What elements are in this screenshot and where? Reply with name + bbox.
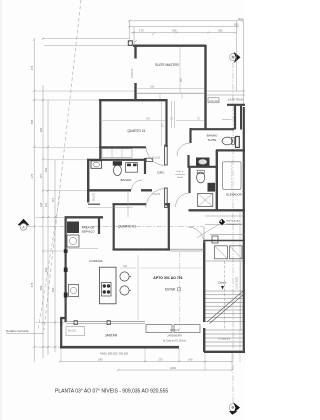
laje tecnica wall bottom (227, 104, 245, 106)
banho2 door arc (176, 193, 190, 207)
elevator top wall (216, 149, 245, 151)
door quarto01 leaf (165, 145, 168, 165)
svg-text:QUARTO 01: QUARTO 01 (128, 129, 146, 133)
svg-text:PLANTA 03° AO 07° NÍVEIS - 909: PLANTA 03° AO 07° NÍVEIS - 909,035 AO 92… (55, 388, 168, 395)
wall south (jantar bottom) (60, 346, 179, 349)
svg-text:QUARTO 02: QUARTO 02 (118, 224, 136, 228)
svg-text:100x100: 100x100 (209, 100, 219, 103)
left wall extension line (44, 45, 133, 47)
wall servico right (98, 217, 100, 234)
bottom dim labels (98, 358, 193, 371)
left reference dim line (43, 38, 131, 40)
wall banho social top (87, 159, 146, 161)
svg-text:VENTILAÇÃO: VENTILAÇÃO (226, 220, 240, 223)
stair center dashed (224, 261, 226, 330)
top dimension line 1 (128, 20, 244, 22)
wall outer left (quarto01) (99, 100, 101, 160)
svg-text:BANHO: BANHO (121, 178, 132, 182)
svg-text:CIRC.: CIRC. (157, 170, 165, 174)
wall circ left (banho right) (144, 158, 146, 174)
corridor partition line (127, 192, 129, 217)
banho social toilet (113, 161, 122, 165)
svg-text:70x210: 70x210 (152, 157, 161, 160)
wall circ right vertical (165, 99, 167, 147)
wall right main (suite/closet) (204, 45, 206, 129)
banho suite vanity (196, 158, 210, 167)
bottom dimension line 1 (59, 360, 233, 362)
svg-text:200x120: 200x120 (170, 329, 180, 332)
svg-text:270: 270 (158, 358, 163, 362)
column top-left corner (128, 41, 132, 46)
door quarto01 arc (146, 147, 165, 166)
servico tank (67, 235, 79, 247)
top dimension line 2 (128, 25, 239, 27)
svg-text:PERMANENTE: PERMANENTE (226, 223, 242, 226)
banho suite toilet (222, 137, 232, 145)
top dimension labels (139, 17, 244, 33)
svg-text:307: 307 (162, 122, 165, 127)
wall banho social bottom (87, 189, 131, 191)
left dim vertical line 4 (54, 160, 56, 352)
landing band (204, 240, 245, 242)
banho suite left wall (189, 128, 191, 143)
banho social shower (126, 163, 138, 173)
top dimension line 3 (131, 31, 237, 33)
svg-text:1060: 1060 (170, 366, 176, 370)
door quarto02 leaf (165, 188, 168, 208)
wall lower-left outer (64, 217, 66, 322)
banho2 shower (198, 193, 213, 206)
kitchen counter sink (69, 285, 79, 297)
svg-text:115: 115 (39, 173, 43, 178)
laje tecnica band lines (207, 91, 245, 95)
wardrobe quarto01 (102, 149, 132, 158)
wall suite left upper (134, 45, 136, 59)
wall quarto02 top west (113, 203, 147, 205)
detail leader dashed line 2 (38, 195, 60, 330)
wall estar right (203, 240, 205, 322)
svg-text:100/210: 100/210 (130, 68, 134, 78)
jardineira band (146, 325, 172, 333)
svg-text:565: 565 (30, 119, 34, 124)
vent leader (197, 224, 221, 238)
svg-text:APTO 301 AO 701: APTO 301 AO 701 (153, 276, 182, 280)
svg-text:LAJE TECN.: LAJE TECN. (228, 98, 244, 102)
interior dim lines (100, 46, 204, 330)
window 100/100 box (208, 98, 219, 103)
left extension lines (35, 100, 100, 347)
corner bottom-left (61, 318, 65, 326)
landing line (206, 260, 243, 262)
left dim vertical line 1 (33, 40, 35, 363)
bottom extension lines (61, 210, 240, 371)
stair lower landing lines (206, 330, 244, 346)
banho suite door arc (177, 143, 190, 156)
stair treads (206, 291, 244, 321)
banho2 toilet (197, 172, 205, 183)
svg-text:Detalhe fachada: Detalhe fachada (6, 329, 29, 333)
svg-text:80x210: 80x210 (93, 192, 96, 201)
wall banho social left / entry stub (87, 159, 89, 203)
banho2 right / elevator left wall (216, 150, 218, 211)
svg-text:75: 75 (197, 118, 200, 121)
ducts on landing (215, 246, 228, 259)
svg-text:80x100: 80x100 (68, 330, 77, 333)
svg-text:SUITE: SUITE (208, 138, 217, 142)
banho social vanity (91, 161, 102, 168)
left dim vertical line 3 (47, 100, 49, 355)
sill box left (66, 327, 85, 336)
laje shaft wall 1 (234, 104, 236, 130)
svg-text:360: 360 (180, 77, 183, 82)
vent symbol diamond (219, 219, 225, 225)
section line A-A (27, 225, 204, 227)
column kitchen wall (64, 249, 68, 253)
wall quarto01 bottom west (99, 146, 146, 148)
wall quarto02 top door stub (165, 203, 170, 205)
stair band wall (210, 234, 245, 236)
laje level extension line (34, 90, 135, 92)
svg-text:295: 295 (172, 29, 177, 33)
bottom dimension line 2 (117, 369, 233, 371)
laje leader (222, 118, 232, 120)
svg-text:COZINHA: COZINHA (89, 259, 103, 263)
left dim vertical line 2 (42, 85, 44, 358)
wall quarto02 left (113, 203, 115, 251)
svg-text:Desce: Desce (219, 281, 227, 285)
banho suite bottom (188, 166, 217, 168)
svg-text:JANTAR: JANTAR (105, 333, 118, 337)
banho2 left wall (188, 167, 190, 193)
svg-text:270: 270 (30, 173, 34, 178)
wall quarto01 top (99, 99, 168, 101)
banho suite lower walls (187, 155, 189, 167)
duct right of toilet (236, 137, 240, 148)
section marker A (18, 219, 30, 230)
window line quarto02-estar (170, 249, 204, 251)
svg-text:275: 275 (30, 65, 34, 70)
left dim ticks (33, 38, 56, 349)
entry hall door arc (188, 227, 204, 243)
wall south left segment (60, 318, 62, 348)
banho social door arc (132, 180, 143, 190)
svg-text:240: 240 (188, 358, 193, 362)
svg-text:575: 575 (30, 282, 34, 287)
servico washer dark (67, 222, 79, 234)
left dim labels (rotated) (30, 65, 55, 292)
section marker B bottom (229, 402, 240, 415)
window line jantar (66, 322, 145, 324)
svg-text:70x210: 70x210 (152, 193, 161, 196)
svg-text:17x17.5x28: 17x17.5x28 (237, 276, 239, 289)
kitchen island (100, 267, 117, 304)
svg-text:450: 450 (44, 267, 48, 272)
svg-text:450: 450 (51, 287, 55, 292)
svg-text:190: 190 (150, 86, 155, 89)
vent band below hall wall (205, 216, 243, 225)
svg-text:NIVEL 909.035 / 920.555: NIVEL 909.035 / 920.555 (100, 353, 129, 356)
svg-text:1522: 1522 (238, 17, 244, 21)
svg-text:240: 240 (98, 358, 103, 362)
wardrobe front suite (137, 92, 204, 94)
svg-text:ELEVADOR: ELEVADOR (226, 192, 242, 196)
window stub (74, 321, 77, 325)
svg-text:170: 170 (139, 29, 144, 33)
svg-text:BANHO: BANHO (207, 134, 218, 138)
svg-text:73: 73 (170, 118, 173, 121)
servico-cozinha divider (66, 248, 98, 250)
duct between banho and circ (146, 158, 153, 161)
wall suite left lower (134, 83, 136, 101)
svg-text:115: 115 (44, 202, 48, 207)
svg-text:ventilação: ventilação (175, 173, 186, 176)
top extension ticks (130, 21, 244, 106)
svg-text:SERVIÇO: SERVIÇO (82, 230, 96, 234)
svg-text:160: 160 (44, 167, 48, 172)
paper edge (0, 0, 2, 420)
wall servico top (65, 216, 104, 218)
section line B-B vertical (232, 62, 234, 403)
svg-text:365: 365 (39, 127, 43, 132)
banho suite top wall (191, 128, 235, 130)
stool 1 (120, 272, 129, 281)
interior dim labels (123, 77, 183, 268)
duct stub (212, 236, 218, 243)
hall partition lines (171, 101, 173, 128)
svg-text:105: 105 (39, 202, 43, 207)
svg-text:40x40: 40x40 (177, 177, 184, 179)
door quarto02 arc (146, 189, 165, 208)
svg-text:Vent. p.: Vent. p. (176, 170, 184, 173)
banho2 sink (208, 183, 216, 192)
svg-text:307: 307 (146, 118, 151, 121)
stair break diagonal (207, 291, 243, 322)
stair bottom wall (204, 351, 245, 353)
svg-text:400: 400 (123, 265, 128, 268)
stool 2 (120, 286, 129, 295)
wall estar right bottom stub (203, 328, 205, 352)
svg-text:(h.Cota de P.) 110cm: (h.Cota de P.) 110cm (163, 340, 186, 343)
corridor dim line (88, 207, 133, 209)
svg-text:ESTAR: ESTAR (165, 288, 176, 292)
elevator car (223, 162, 242, 190)
top small ticks at wall (128, 33, 154, 43)
svg-text:115: 115 (51, 197, 55, 202)
section marker B top (230, 52, 241, 63)
wall quarto02 bottom (113, 248, 171, 250)
cooktop (102, 283, 112, 297)
wall suite top (133, 45, 206, 47)
svg-text:C.Caixa d'a.: C.Caixa d'a. (218, 339, 231, 341)
wall quarto02 right (168, 203, 170, 251)
jardineira labels (163, 329, 186, 343)
detail leader dashed line 1 (44, 0, 81, 330)
svg-text:565: 565 (39, 285, 43, 290)
right outer wall (243, 107, 245, 352)
svg-text:SUITE MASTER: SUITE MASTER (155, 63, 179, 67)
wall hall top (circ bottom) (88, 203, 100, 205)
banho2 bottom / hall top wall (189, 209, 246, 211)
laje shaft wall 2 (240, 104, 242, 130)
svg-text:295: 295 (218, 29, 223, 33)
svg-text:JARDINEIRA: JARDINEIRA (167, 334, 182, 337)
